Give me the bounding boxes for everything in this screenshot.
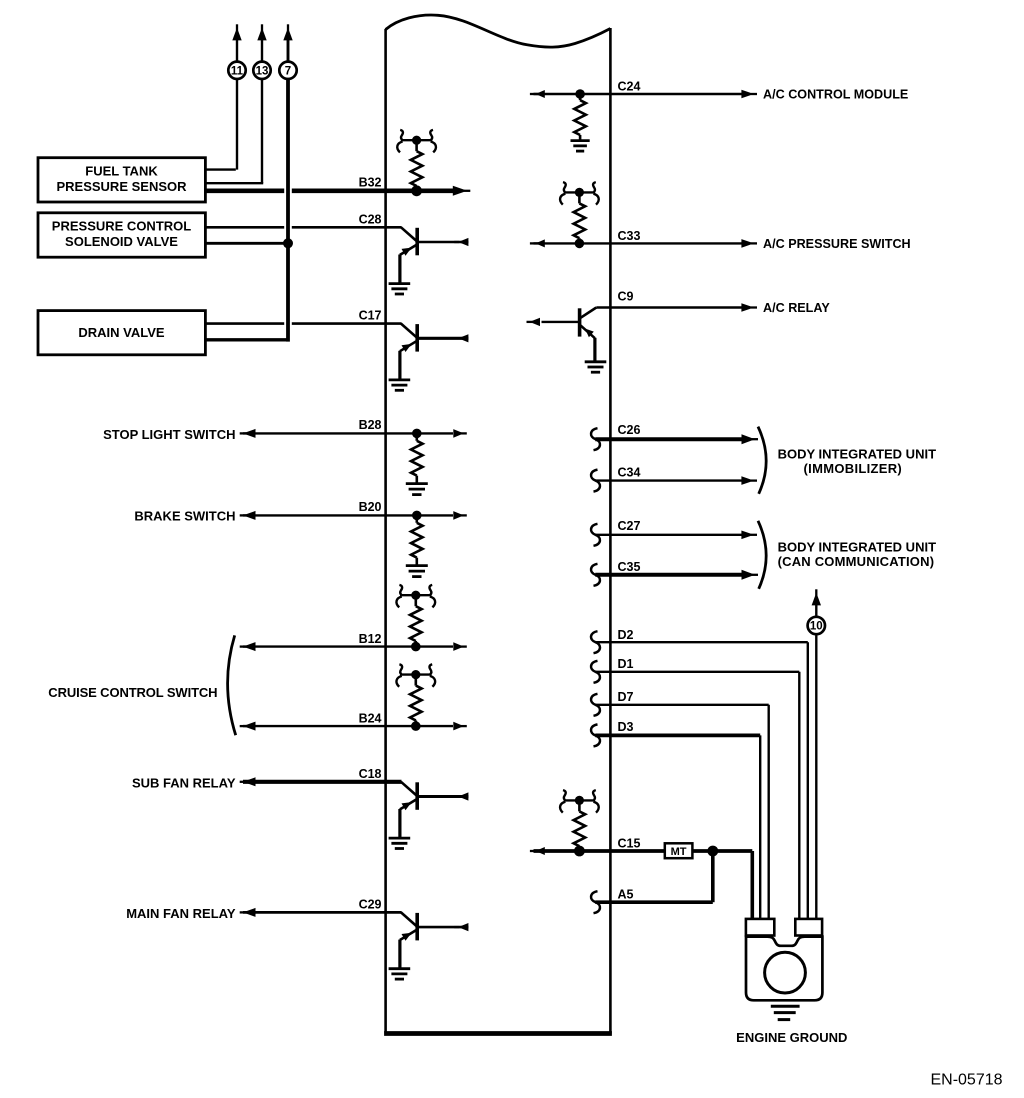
svg-text:C24: C24: [618, 80, 641, 94]
junction dot C15/A5: [707, 846, 718, 857]
node 10 circle: [808, 617, 825, 634]
svg-text:C17: C17: [359, 309, 382, 323]
ground for B28 resistor: [406, 482, 428, 485]
svg-text:SOLENOID VALVE: SOLENOID VALVE: [65, 234, 178, 249]
transistor driver Q2 for C17: [401, 324, 416, 338]
svg-text:C35: C35: [618, 560, 641, 574]
transistor driver Q1 for C28: [401, 227, 416, 241]
wire C35 to body integrated unit: [591, 564, 600, 586]
svg-text:C18: C18: [359, 767, 382, 781]
wire C9 A/C relay: [596, 306, 742, 308]
wire node 7 vertical down to drain valve: [286, 80, 290, 342]
arrow up to circled node 13: [261, 24, 263, 31]
svg-text:A/C PRESSURE SWITCH: A/C PRESSURE SWITCH: [763, 237, 911, 251]
pull-up coil resistor on B32: [401, 139, 433, 141]
ECM module boundary box left edge: [384, 29, 387, 1034]
svg-text:SUB FAN RELAY: SUB FAN RELAY: [132, 776, 236, 791]
wire B24 cruise control switch to ECM: [240, 725, 246, 727]
svg-text:7: 7: [285, 66, 291, 78]
wire C26 to body integrated unit: [591, 428, 600, 450]
svg-text:PRESSURE SENSOR: PRESSURE SENSOR: [56, 179, 187, 194]
ECM module boundary box bottom edge: [384, 1031, 612, 1036]
svg-text:(CAN COMMUNICATION): (CAN COMMUNICATION): [778, 554, 935, 569]
wire D3 to engine ground: [591, 724, 600, 746]
svg-text:C27: C27: [618, 519, 641, 533]
arrow B32 into ECM: [464, 190, 470, 192]
ECM module boundary box right edge: [609, 28, 612, 1034]
svg-text:C34: C34: [618, 466, 641, 480]
pull-down resistor on C24: [579, 94, 582, 100]
wire B28 stop light switch to ECM: [240, 432, 246, 434]
svg-text:MT: MT: [671, 846, 687, 858]
engine ground lug bolt circle: [765, 952, 806, 993]
svg-text:13: 13: [256, 66, 269, 78]
wire C29 main fan relay to ECM: [240, 911, 246, 913]
white hop casing for node 7 wire: [284, 86, 292, 336]
transistor driver Q4 for C29: [401, 912, 416, 926]
engine ground left terminal: [746, 919, 774, 936]
grouping bracket body integrated unit CAN: [758, 521, 766, 589]
junction dot B28: [412, 429, 422, 439]
wire drain valve to node 7: [205, 338, 290, 341]
svg-text:11: 11: [231, 66, 244, 78]
wire MT box to engine ground: [692, 849, 752, 853]
svg-text:C15: C15: [618, 836, 641, 850]
svg-text:B24: B24: [359, 712, 382, 726]
wire D1 to engine ground: [591, 661, 600, 683]
pull-up coil resistor on C15: [564, 799, 596, 801]
wire C24 A/C control module: [530, 93, 539, 95]
svg-text:D3: D3: [618, 720, 634, 734]
wire pressure control solenoid valve to node 7: [205, 242, 288, 245]
transistor driver Q5 for C9: [580, 308, 596, 319]
wire D2 to engine ground: [591, 631, 600, 653]
junction dot B32: [411, 185, 422, 196]
svg-text:B12: B12: [359, 632, 382, 646]
ground for Q5: [585, 360, 607, 363]
wire node 10 down to engine ground: [815, 635, 817, 919]
pull-up coil resistor on B12: [400, 594, 432, 596]
svg-text:MAIN FAN RELAY: MAIN FAN RELAY: [126, 906, 236, 921]
svg-text:C33: C33: [618, 229, 641, 243]
svg-text:D7: D7: [618, 690, 634, 704]
svg-text:BRAKE SWITCH: BRAKE SWITCH: [134, 509, 235, 524]
svg-text:CRUISE CONTROL SWITCH: CRUISE CONTROL SWITCH: [48, 685, 217, 700]
grouping bracket body integrated unit immobilizer: [758, 427, 766, 494]
engine ground lug body: [746, 937, 822, 1001]
svg-text:DRAIN VALVE: DRAIN VALVE: [78, 325, 165, 340]
junction dot node 7 / pressure control solenoid valve: [283, 238, 293, 248]
ground for B20 resistor: [406, 564, 428, 567]
junction dot C24: [575, 89, 585, 99]
arrow up to circled node 7: [287, 24, 289, 31]
svg-text:B32: B32: [359, 176, 382, 190]
svg-text:D1: D1: [618, 657, 634, 671]
pull-down resistor on B20: [415, 515, 418, 522]
pull-down resistor on B28: [415, 433, 418, 440]
MT variant box: [665, 843, 693, 858]
ground for C24 resistor: [571, 139, 590, 142]
svg-text:EN-05718: EN-05718: [930, 1071, 1002, 1088]
svg-text:A/C RELAY: A/C RELAY: [763, 301, 830, 315]
wire C27 to body integrated unit: [591, 524, 600, 546]
pull-up coil resistor on B24: [400, 673, 432, 675]
wire C18 sub fan relay to ECM: [240, 781, 246, 783]
junction dot C33: [575, 239, 585, 249]
svg-text:C26: C26: [618, 423, 641, 437]
svg-text:C9: C9: [618, 290, 634, 304]
wire from node 13 down to fuel tank pressure sensor: [261, 80, 263, 183]
grouping bracket for cruise control switch: [228, 635, 236, 735]
junction dot B24: [411, 721, 421, 731]
component box DRAIN VALVE: [38, 311, 205, 355]
wire B32 fuel tank pressure sensor to ECM: [205, 189, 453, 194]
wire C17 drain valve to ECM: [205, 322, 402, 325]
svg-text:C29: C29: [359, 898, 382, 912]
svg-text:A/C CONTROL MODULE: A/C CONTROL MODULE: [763, 88, 908, 102]
wire C15 inside ECM with arrow: [530, 850, 539, 852]
svg-text:C28: C28: [359, 212, 382, 226]
ECM module boundary torn wavy top edge: [386, 15, 611, 47]
engine ground right terminal: [795, 919, 822, 936]
svg-text:FUEL TANK: FUEL TANK: [85, 163, 158, 178]
svg-text:PRESSURE CONTROL: PRESSURE CONTROL: [52, 219, 191, 234]
wire C33 A/C pressure switch: [530, 242, 539, 244]
wire D7 to engine ground: [591, 694, 600, 716]
svg-text:B20: B20: [359, 500, 382, 514]
wire A5 to engine ground junction: [591, 891, 600, 913]
wire C28 pressure control solenoid valve to ECM: [205, 226, 402, 229]
svg-text:D2: D2: [618, 628, 634, 642]
component box FUEL TANK PRESSURE SENSOR: [38, 158, 205, 202]
component box PRESSURE CONTROL SOLENOID VALVE: [38, 213, 205, 257]
node 7 circle: [279, 62, 296, 79]
wire B20 brake switch to ECM: [240, 514, 246, 516]
arrow up to circled node 11: [236, 24, 238, 31]
junction dot C15 resistor: [574, 846, 585, 857]
svg-text:STOP LIGHT SWITCH: STOP LIGHT SWITCH: [103, 427, 235, 442]
transistor driver Q3 for C18: [401, 782, 416, 796]
pull-up coil resistor on C33: [564, 191, 596, 193]
svg-text:ENGINE GROUND: ENGINE GROUND: [736, 1030, 847, 1045]
node 13 circle: [253, 62, 270, 79]
node 11 circle: [228, 62, 245, 79]
wire C34 to body integrated unit: [591, 470, 600, 492]
arrow up to circled node 10: [815, 589, 817, 596]
junction dot B12: [411, 642, 421, 652]
svg-text:10: 10: [810, 621, 823, 633]
junction dot B20: [412, 511, 422, 521]
engine ground symbol: [771, 1005, 800, 1008]
svg-text:(IMMOBILIZER): (IMMOBILIZER): [804, 461, 903, 476]
svg-text:BODY INTEGRATED UNIT: BODY INTEGRATED UNIT: [778, 447, 936, 462]
svg-text:BODY INTEGRATED UNIT: BODY INTEGRATED UNIT: [778, 540, 936, 555]
svg-text:A5: A5: [618, 888, 634, 902]
svg-text:B28: B28: [359, 418, 382, 432]
wire from node 11 down to fuel tank pressure sensor: [236, 80, 238, 170]
wire B12 cruise control switch to ECM: [240, 645, 246, 647]
